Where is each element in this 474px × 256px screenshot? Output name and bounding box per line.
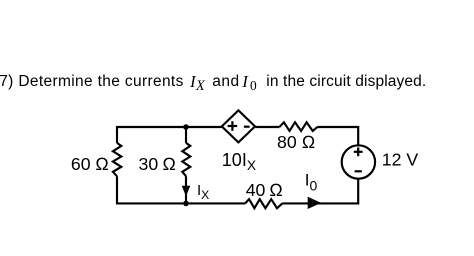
svg-text:12 V: 12 V [382, 150, 419, 170]
voltage source V1 12V circle [342, 145, 375, 178]
node B junction dot (bottom of 30 ohm branch) [183, 201, 189, 207]
wire middle branch lower stub (IX arrow shaft) [185, 176, 187, 203]
minus sign of dependent source [244, 126, 250, 128]
current IX arrowhead (pointing down) [182, 186, 191, 196]
minus sign of voltage source V1 [355, 170, 362, 172]
plus sign of dependent source [228, 121, 238, 131]
wire left branch upper stub [116, 126, 118, 143]
wire middle branch upper stub [185, 127, 187, 143]
dependent source U1 diamond [222, 110, 255, 142]
svg-text:30: 30 [139, 154, 159, 174]
resistor R 60ohm zigzag [113, 143, 121, 176]
svg-text:I0: I0 [305, 171, 318, 194]
wire top-left segment (node A to dependent source) [117, 126, 222, 128]
svg-text:10IX: 10IX [222, 150, 256, 173]
wire right branch lower stub [357, 179, 359, 204]
wire right branch upper stub [357, 126, 359, 145]
wire top-right segment (80 ohm to right branch) [318, 126, 359, 128]
wire top between dependent source and 80 ohm resistor [255, 126, 279, 128]
wire bottom-middle segment (40 ohm to I0 arrow and right corner) [282, 202, 359, 204]
resistor R 40ohm zigzag [245, 199, 282, 208]
svg-text:60: 60 [71, 154, 91, 174]
node A junction dot (top of 30 ohm branch) [183, 124, 189, 130]
plus sign of voltage source V1 [354, 147, 363, 156]
current I0 arrowhead (pointing right) [308, 197, 322, 209]
svg-text:IX: IX [197, 182, 209, 202]
svg-text:Ω: Ω [162, 154, 176, 174]
svg-text:Ω: Ω [95, 154, 109, 174]
wire left branch lower stub [116, 176, 118, 204]
resistor R 80ohm zigzag [280, 122, 318, 131]
svg-text:Ω: Ω [269, 180, 283, 200]
resistor R 30ohm zigzag [182, 143, 190, 176]
svg-text:80: 80 [277, 132, 297, 152]
svg-text:40: 40 [246, 180, 266, 200]
wire bottom-left segment [116, 202, 245, 204]
problem statement title [0, 74, 184, 90]
svg-text:Ω: Ω [302, 132, 316, 152]
